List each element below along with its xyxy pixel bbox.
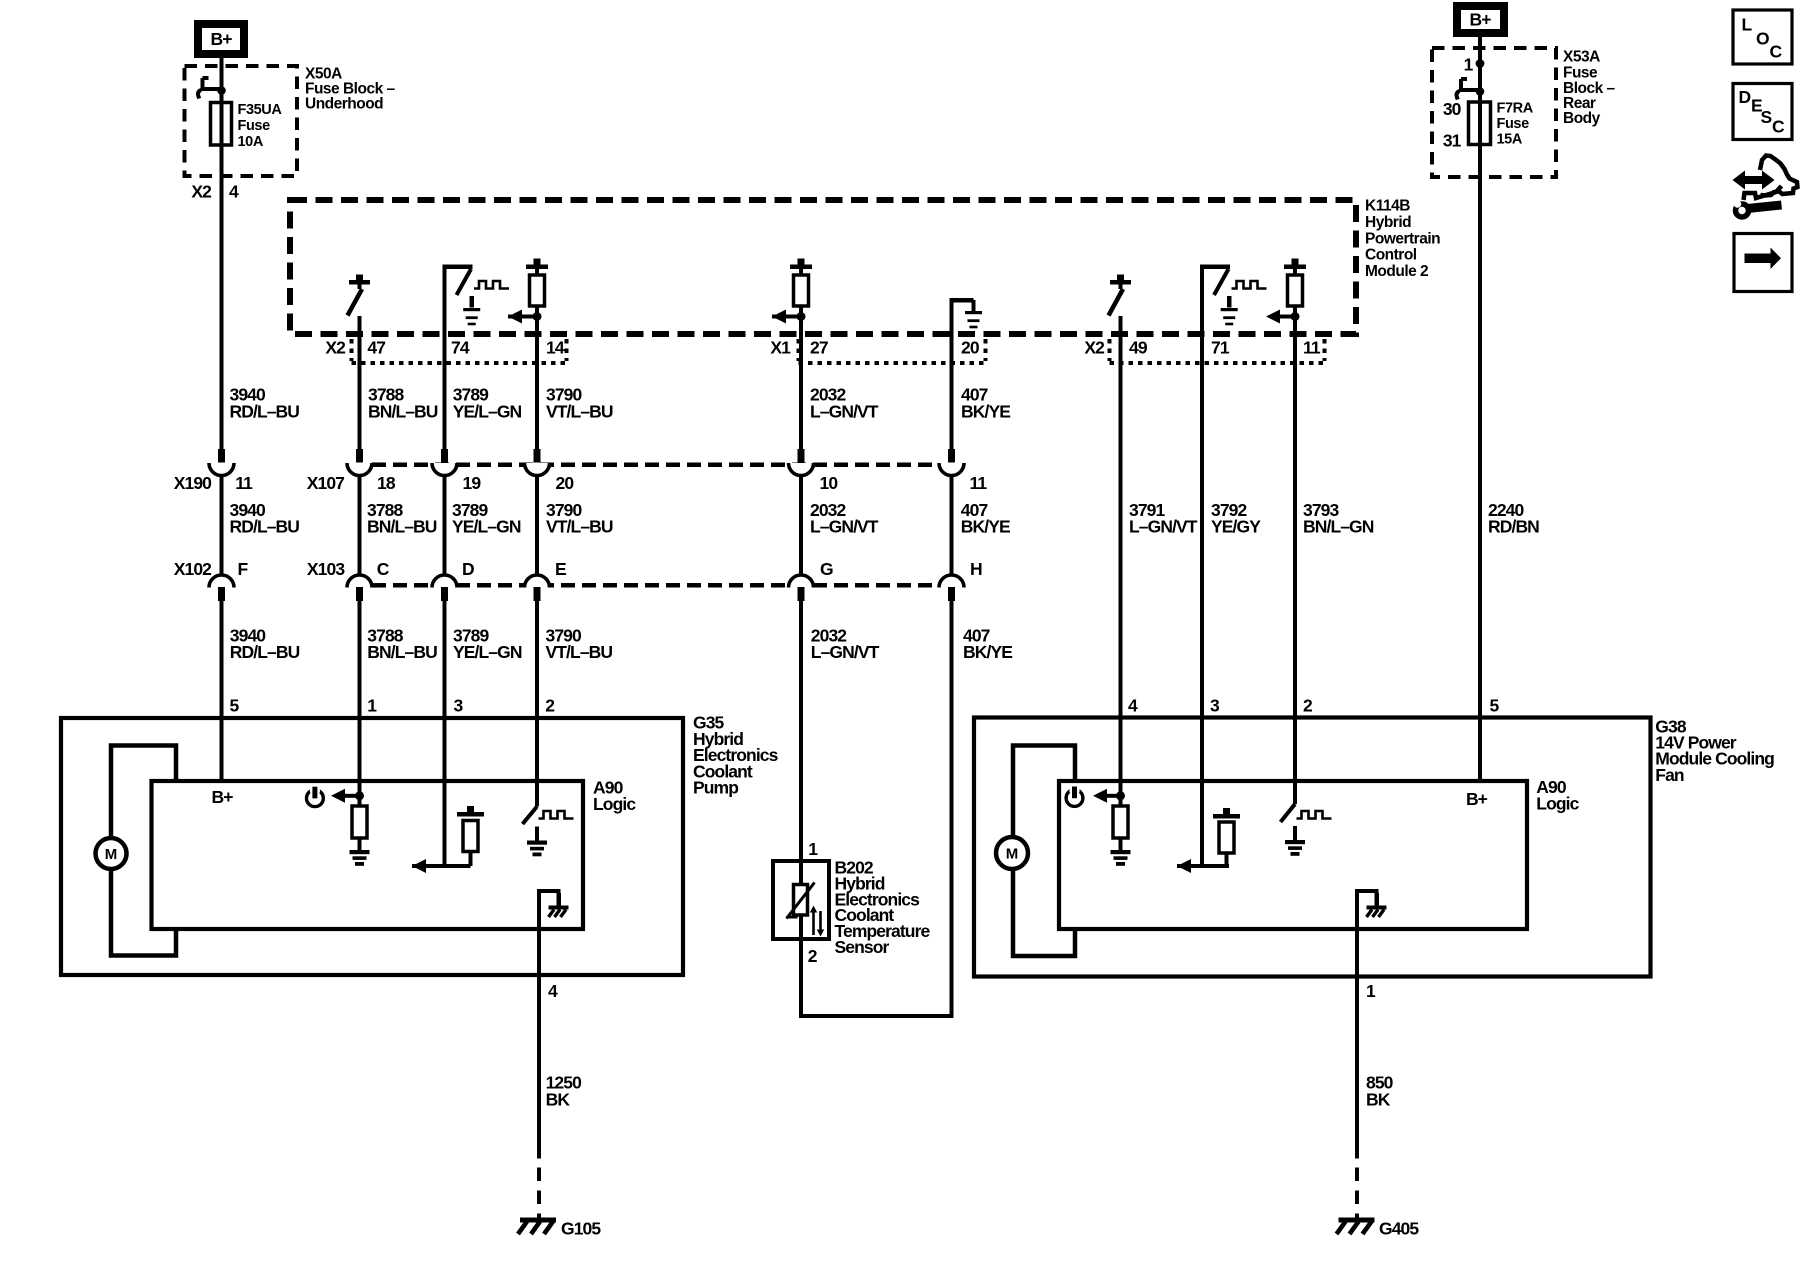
svg-text:2: 2 bbox=[808, 946, 818, 966]
svg-text:YE/GY: YE/GY bbox=[1211, 517, 1261, 537]
svg-text:Control: Control bbox=[1365, 247, 1417, 264]
svg-text:1: 1 bbox=[367, 696, 377, 716]
svg-text:BK/YE: BK/YE bbox=[963, 642, 1012, 662]
svg-text:Logic: Logic bbox=[1536, 794, 1579, 814]
svg-text:BN/L–GN: BN/L–GN bbox=[1303, 517, 1374, 537]
svg-text:Fuse: Fuse bbox=[238, 118, 271, 134]
svg-text:10: 10 bbox=[820, 473, 839, 493]
svg-text:B+: B+ bbox=[212, 787, 234, 807]
svg-text:X102: X102 bbox=[174, 559, 212, 579]
svg-text:L–GN/VT: L–GN/VT bbox=[810, 402, 879, 422]
svg-text:YE/L–GN: YE/L–GN bbox=[453, 642, 522, 662]
svg-text:D: D bbox=[1739, 87, 1751, 107]
svg-text:Fuse: Fuse bbox=[1497, 116, 1530, 132]
svg-text:BK/YE: BK/YE bbox=[961, 402, 1010, 422]
svg-text:VT/L–BU: VT/L–BU bbox=[546, 402, 613, 422]
svg-text:5: 5 bbox=[230, 696, 240, 716]
svg-text:G405: G405 bbox=[1379, 1219, 1419, 1239]
svg-text:19: 19 bbox=[463, 473, 482, 493]
svg-text:4: 4 bbox=[1128, 696, 1138, 716]
svg-text:C: C bbox=[1772, 117, 1785, 137]
svg-text:B+: B+ bbox=[210, 29, 232, 49]
svg-text:1: 1 bbox=[1464, 55, 1474, 75]
svg-text:E: E bbox=[555, 559, 566, 579]
svg-text:2: 2 bbox=[1303, 696, 1313, 716]
svg-text:B+: B+ bbox=[1469, 10, 1491, 30]
svg-text:Underhood: Underhood bbox=[305, 96, 383, 113]
svg-text:D: D bbox=[462, 559, 474, 579]
svg-text:X103: X103 bbox=[307, 559, 345, 579]
svg-text:BN/L–BU: BN/L–BU bbox=[367, 642, 437, 662]
svg-text:C: C bbox=[1770, 42, 1783, 62]
svg-text:X1: X1 bbox=[770, 338, 791, 358]
svg-text:YE/L–GN: YE/L–GN bbox=[452, 517, 521, 537]
svg-text:Body: Body bbox=[1563, 110, 1601, 127]
svg-text:Fuse: Fuse bbox=[1563, 64, 1598, 81]
svg-text:11: 11 bbox=[970, 473, 988, 493]
svg-text:11: 11 bbox=[1303, 338, 1321, 358]
svg-text:14: 14 bbox=[546, 338, 565, 358]
svg-text:Pump: Pump bbox=[693, 778, 738, 798]
svg-text:F: F bbox=[238, 559, 249, 579]
svg-text:Powertrain: Powertrain bbox=[1365, 230, 1440, 247]
svg-text:Hybrid: Hybrid bbox=[1365, 214, 1411, 231]
svg-text:18: 18 bbox=[377, 473, 396, 493]
svg-text:RD/L–BU: RD/L–BU bbox=[230, 402, 300, 422]
svg-text:RD/L–BU: RD/L–BU bbox=[230, 517, 300, 537]
svg-text:2: 2 bbox=[545, 696, 555, 716]
svg-text:31: 31 bbox=[1443, 131, 1462, 151]
svg-text:BK: BK bbox=[546, 1089, 571, 1109]
svg-text:VT/L–BU: VT/L–BU bbox=[546, 642, 613, 662]
svg-text:L–GN/VT: L–GN/VT bbox=[1129, 517, 1198, 537]
svg-text:G: G bbox=[820, 559, 833, 579]
svg-text:47: 47 bbox=[367, 338, 385, 358]
svg-text:BK/YE: BK/YE bbox=[961, 517, 1010, 537]
svg-text:M: M bbox=[105, 846, 118, 863]
svg-text:F7RA: F7RA bbox=[1497, 101, 1534, 117]
svg-text:X190: X190 bbox=[174, 473, 212, 493]
svg-text:BN/L–BU: BN/L–BU bbox=[368, 402, 438, 422]
svg-text:L: L bbox=[1742, 15, 1753, 35]
svg-text:10A: 10A bbox=[238, 134, 264, 150]
svg-text:BK: BK bbox=[1366, 1089, 1391, 1109]
svg-text:5: 5 bbox=[1490, 696, 1500, 716]
svg-text:X2: X2 bbox=[325, 338, 346, 358]
svg-text:M: M bbox=[1006, 846, 1019, 863]
svg-text:4: 4 bbox=[229, 182, 239, 202]
svg-text:Fan: Fan bbox=[1655, 765, 1684, 785]
svg-text:4: 4 bbox=[548, 981, 558, 1001]
svg-text:Sensor: Sensor bbox=[835, 937, 890, 957]
svg-text:71: 71 bbox=[1211, 338, 1230, 358]
svg-text:RD/BN: RD/BN bbox=[1488, 517, 1539, 537]
svg-text:X2: X2 bbox=[191, 182, 212, 202]
svg-text:RD/L–BU: RD/L–BU bbox=[230, 642, 300, 662]
svg-text:G105: G105 bbox=[561, 1219, 601, 1239]
svg-text:1: 1 bbox=[1366, 981, 1376, 1001]
svg-text:H: H bbox=[970, 559, 982, 579]
svg-text:27: 27 bbox=[810, 338, 828, 358]
svg-text:X53A: X53A bbox=[1563, 48, 1600, 65]
svg-text:Module 2: Module 2 bbox=[1365, 263, 1428, 280]
svg-text:20: 20 bbox=[556, 473, 575, 493]
svg-text:VT/L–BU: VT/L–BU bbox=[546, 517, 613, 537]
svg-text:S: S bbox=[1761, 107, 1772, 127]
svg-text:BN/L–BU: BN/L–BU bbox=[367, 517, 437, 537]
svg-text:30: 30 bbox=[1443, 99, 1462, 119]
svg-text:X107: X107 bbox=[307, 473, 344, 493]
svg-text:1: 1 bbox=[808, 839, 818, 859]
svg-text:B+: B+ bbox=[1466, 789, 1488, 809]
svg-text:O: O bbox=[1756, 29, 1769, 49]
svg-text:20: 20 bbox=[961, 338, 980, 358]
svg-text:3: 3 bbox=[1210, 696, 1220, 716]
svg-text:74: 74 bbox=[451, 338, 470, 358]
svg-text:L–GN/VT: L–GN/VT bbox=[810, 517, 879, 537]
svg-text:3: 3 bbox=[454, 696, 464, 716]
svg-text:15A: 15A bbox=[1497, 131, 1523, 147]
svg-text:L–GN/VT: L–GN/VT bbox=[811, 642, 880, 662]
svg-text:49: 49 bbox=[1129, 338, 1148, 358]
svg-text:K114B: K114B bbox=[1365, 198, 1410, 215]
svg-text:YE/L–GN: YE/L–GN bbox=[453, 402, 522, 422]
svg-text:C: C bbox=[377, 559, 390, 579]
svg-text:11: 11 bbox=[235, 473, 253, 493]
svg-text:F35UA: F35UA bbox=[238, 102, 283, 118]
svg-text:X2: X2 bbox=[1084, 338, 1105, 358]
svg-text:Logic: Logic bbox=[593, 794, 636, 814]
